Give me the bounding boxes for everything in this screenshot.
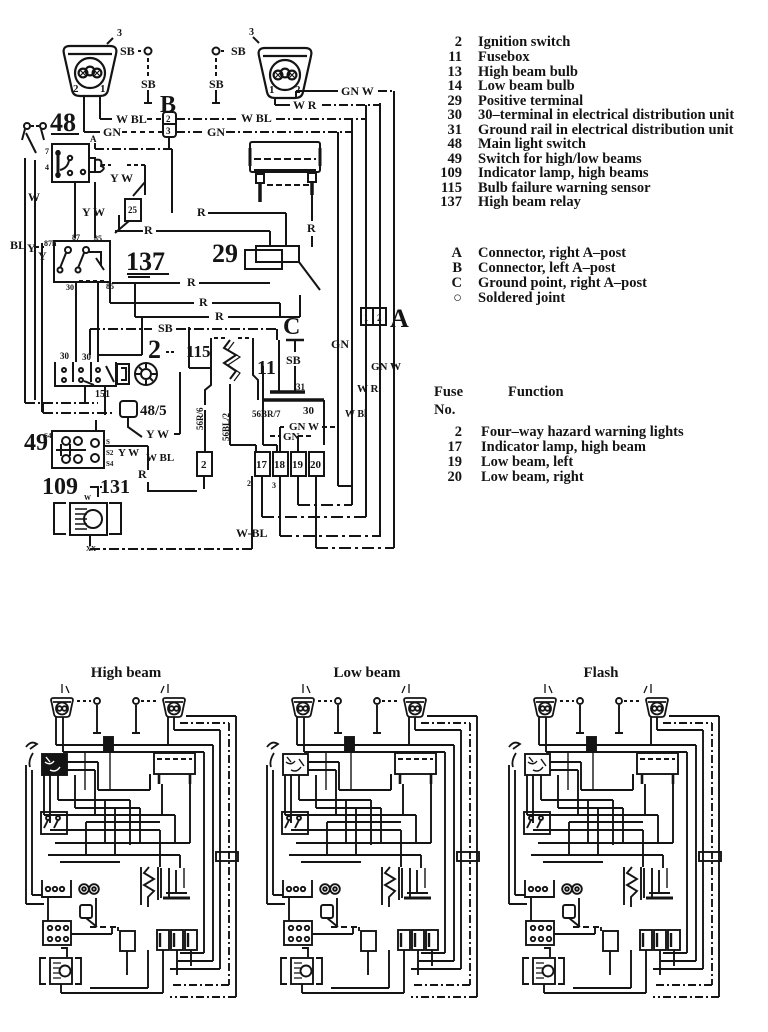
soldered joint right SB — [209, 44, 246, 103]
wire A from switch 48 — [90, 134, 172, 213]
wire GN W to fuses — [280, 421, 338, 452]
bulb failure warning sensor 115 — [186, 327, 258, 410]
wire GN to fuses — [270, 431, 312, 452]
svg-text:W Bl: W Bl — [345, 409, 367, 420]
svg-text:GN: GN — [103, 125, 121, 139]
svg-text:29: 29 — [212, 239, 238, 268]
svg-text:Indicator lamp, high beams: Indicator lamp, high beams — [478, 165, 649, 181]
label 137 — [126, 247, 169, 277]
fuse 18 — [273, 452, 381, 536]
svg-text:A: A — [90, 134, 97, 144]
ground C — [283, 314, 304, 392]
mini diagram high beam — [26, 684, 238, 997]
switch high/low 49 — [44, 431, 114, 468]
svg-text:11: 11 — [257, 357, 276, 379]
svg-text:48/5: 48/5 — [140, 403, 167, 419]
svg-text:R: R — [215, 309, 224, 323]
svg-text:1: 1 — [269, 84, 275, 96]
svg-text:Main light switch: Main light switch — [478, 136, 586, 152]
svg-text:25: 25 — [128, 205, 138, 215]
legend list component names — [440, 34, 734, 210]
svg-text:1: 1 — [100, 83, 106, 95]
label 48 — [50, 108, 79, 137]
mini titles — [91, 665, 619, 681]
svg-text:R: R — [197, 205, 206, 219]
svg-text:2: 2 — [455, 34, 462, 50]
high beam relay 137 — [44, 233, 114, 292]
svg-text:Y W: Y W — [110, 171, 133, 185]
label 49 — [24, 430, 48, 456]
svg-text:30: 30 — [303, 405, 315, 417]
svg-text:14: 14 — [448, 78, 463, 94]
mini switch 48 solid (high beam active) — [42, 754, 67, 775]
svg-text:11: 11 — [448, 49, 462, 65]
high beam bulb 13 right — [249, 27, 311, 98]
fuse 20 — [309, 452, 394, 548]
fuse 17 — [255, 452, 366, 517]
svg-text:A: A — [452, 245, 463, 261]
bottom left corner wires — [95, 420, 97, 431]
svg-text:High beam: High beam — [91, 665, 162, 681]
connector A — [361, 304, 409, 333]
svg-text:S4: S4 — [106, 460, 114, 468]
svg-text:151: 151 — [95, 389, 110, 400]
svg-text:137: 137 — [126, 247, 165, 276]
svg-text:30: 30 — [448, 107, 463, 123]
fuse 19 — [291, 452, 352, 505]
svg-text:1: 1 — [364, 313, 369, 323]
svg-text:131: 131 — [100, 476, 130, 498]
wire SB bus — [90, 321, 277, 355]
svg-text:Ground point, right A–post: Ground point, right A–post — [478, 275, 647, 291]
main light switch 48 — [45, 144, 104, 182]
svg-text:Fusebox: Fusebox — [478, 49, 530, 65]
right vertical wire 4 — [371, 103, 401, 536]
svg-text:30–terminal in electrical dist: 30–terminal in electrical distribution u… — [478, 107, 734, 123]
svg-text:Y W: Y W — [118, 447, 139, 459]
svg-text:W R: W R — [357, 383, 380, 395]
wire Y W switch to 25 box — [101, 165, 145, 196]
wire R mid — [115, 215, 270, 247]
svg-text:Connector, right A–post: Connector, right A–post — [478, 245, 626, 261]
wire R relay to 29 lower — [112, 275, 270, 289]
wire W-BL left lamp to B — [100, 96, 163, 126]
svg-text:31: 31 — [296, 382, 306, 392]
svg-text:GN W: GN W — [341, 84, 374, 98]
svg-text:2: 2 — [201, 459, 207, 471]
svg-text:S4: S4 — [44, 432, 52, 440]
indicator lamp 109 — [54, 487, 121, 553]
svg-text:No.: No. — [434, 402, 455, 418]
svg-text:87h: 87h — [44, 239, 57, 248]
svg-text:30: 30 — [66, 283, 74, 292]
wire W left vertical — [25, 133, 42, 412]
svg-text:Soldered joint: Soldered joint — [478, 290, 565, 306]
svg-text:17: 17 — [448, 439, 463, 455]
svg-text:2: 2 — [377, 313, 382, 323]
wire 56R/6 — [195, 407, 205, 452]
svg-text:SB: SB — [120, 44, 135, 58]
terminal stud right — [308, 173, 316, 195]
svg-text:W R: W R — [293, 98, 317, 112]
wire 56BR/7 — [252, 392, 281, 452]
svg-text:20: 20 — [310, 459, 322, 471]
svg-text:2: 2 — [73, 83, 79, 95]
wire R stud-left down — [197, 205, 286, 247]
svg-text:2: 2 — [247, 479, 251, 488]
fuse table — [434, 384, 684, 485]
svg-text:Ignition switch: Ignition switch — [478, 34, 570, 50]
svg-text:2: 2 — [455, 424, 462, 440]
svg-text:R: R — [307, 221, 316, 235]
positive terminal 29 — [245, 246, 320, 290]
wire Y W from 48/5 — [146, 372, 180, 441]
svg-text:R: R — [138, 467, 147, 481]
svg-text:19: 19 — [448, 454, 463, 470]
wire W-R right lamp — [275, 98, 380, 112]
svg-text:2: 2 — [166, 114, 171, 124]
wire GN from B to right vertical — [176, 125, 352, 139]
svg-text:56R/6: 56R/6 — [195, 407, 205, 430]
svg-text:R: R — [199, 295, 208, 309]
svg-text:R: R — [144, 223, 153, 237]
svg-text:B: B — [452, 260, 462, 276]
svg-text:4: 4 — [45, 163, 49, 172]
svg-text:Connector, left A–post: Connector, left A–post — [478, 260, 616, 276]
wire W-BL bottom run — [90, 476, 268, 549]
svg-text:Indicator lamp, high beam: Indicator lamp, high beam — [481, 439, 646, 455]
svg-text:GN: GN — [207, 125, 225, 139]
wire W-BL from B to right vertical — [176, 111, 366, 125]
svg-text:W BL: W BL — [116, 112, 147, 126]
svg-text:Y W: Y W — [82, 205, 105, 219]
svg-text:56BR/7: 56BR/7 — [252, 409, 281, 419]
svg-text:20: 20 — [448, 469, 463, 485]
soldered joint left SB — [120, 44, 156, 103]
svg-text:S2: S2 — [106, 449, 114, 457]
svg-text:109: 109 — [440, 165, 462, 181]
legend connectors — [452, 245, 648, 306]
svg-text:19: 19 — [292, 459, 304, 471]
svg-text:○: ○ — [453, 290, 462, 306]
svg-text:48: 48 — [50, 108, 76, 137]
svg-text:3: 3 — [166, 126, 171, 136]
label 109 131 — [42, 474, 130, 500]
wire 30 labels above ignition — [60, 283, 142, 362]
svg-text:R: R — [187, 275, 196, 289]
svg-text:48: 48 — [448, 136, 463, 152]
svg-text:C: C — [283, 314, 300, 340]
svg-text:BL: BL — [10, 238, 26, 252]
right vertical wire W R — [357, 105, 380, 517]
svg-text:SB: SB — [158, 321, 173, 335]
connector B — [160, 92, 176, 149]
svg-text:Function: Function — [508, 384, 564, 400]
svg-text:Low beam, right: Low beam, right — [481, 469, 584, 485]
svg-text:Flash: Flash — [583, 665, 619, 681]
wire BL-Y left labels — [10, 238, 47, 263]
connector 48/5 — [120, 401, 167, 437]
mini diagram flash — [509, 684, 721, 997]
svg-text:A: A — [390, 304, 409, 333]
label 29 — [212, 239, 238, 268]
svg-text:W BL: W BL — [241, 111, 272, 125]
svg-text:GN: GN — [331, 337, 349, 351]
svg-text:Low beam bulb: Low beam bulb — [478, 78, 575, 94]
high beam bulb 13 left — [64, 28, 122, 96]
svg-text:GN W: GN W — [371, 361, 401, 373]
right vertical wire GN — [331, 132, 352, 486]
svg-text:SB: SB — [209, 77, 224, 91]
svg-text:18: 18 — [274, 459, 286, 471]
svg-text:2: 2 — [148, 335, 161, 364]
fusebox 11 — [257, 340, 324, 445]
svg-text:SB: SB — [286, 353, 301, 367]
svg-text:Low beam, left: Low beam, left — [481, 454, 573, 470]
svg-text:30: 30 — [60, 351, 70, 361]
connector 25 box — [115, 199, 141, 233]
svg-text:C: C — [452, 275, 462, 291]
svg-text:3: 3 — [117, 28, 122, 39]
wire R stud-right down — [307, 195, 316, 247]
svg-text:SB: SB — [231, 44, 246, 58]
svg-text:30: 30 — [82, 352, 92, 362]
svg-text:W: W — [84, 494, 91, 502]
soldered joints near 48 — [22, 123, 46, 140]
svg-text:Low beam: Low beam — [333, 665, 401, 681]
terminal stud left — [256, 174, 309, 202]
svg-text:17: 17 — [256, 459, 268, 471]
wire 56BL/2 — [221, 410, 256, 452]
fuse 2 — [197, 452, 212, 489]
svg-text:SB: SB — [141, 77, 156, 91]
ignition switch 2 — [55, 362, 116, 400]
svg-text:S: S — [106, 438, 110, 446]
svg-text:3: 3 — [249, 27, 254, 38]
svg-text:7: 7 — [45, 147, 49, 156]
svg-text:W BL: W BL — [146, 452, 174, 464]
svg-text:Four–way hazard warning lights: Four–way hazard warning lights — [481, 424, 684, 440]
right vertical wire GN W tall — [393, 91, 395, 548]
label 2 ignition — [148, 335, 174, 364]
wire 49 to right Y W / W BL — [104, 446, 197, 491]
wire R bus 303 — [110, 283, 280, 317]
svg-text:High beam relay: High beam relay — [478, 194, 582, 210]
wire GN left lamp to B — [84, 96, 163, 139]
svg-text:Y W: Y W — [146, 427, 169, 441]
wire R bus 317 — [135, 283, 300, 323]
ignition key symbol — [117, 363, 157, 385]
box 30-terminal unit top right — [250, 142, 320, 172]
svg-text:3: 3 — [272, 481, 276, 490]
mini diagram low beam — [267, 684, 479, 997]
wire GN-W right lamp — [296, 84, 394, 98]
pin labels under fuses — [247, 479, 276, 490]
wire dash-dot under ignition — [25, 386, 112, 415]
svg-text:109: 109 — [42, 474, 78, 500]
svg-text:Fuse: Fuse — [434, 384, 464, 400]
right vertical wire W BL — [345, 119, 367, 505]
wire Y W vertical to relay — [75, 182, 105, 238]
svg-text:137: 137 — [440, 194, 462, 210]
